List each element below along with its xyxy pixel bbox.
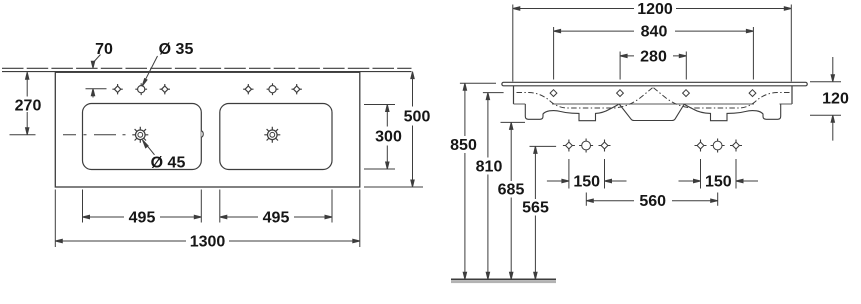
leader Ø45	[145, 143, 155, 155]
dim 500	[412, 72, 414, 187]
wall line solid	[2, 71, 412, 73]
body sides	[514, 86, 793, 104]
wall line dashed top	[2, 67, 412, 69]
floor	[451, 278, 556, 280]
svg-text:565: 565	[522, 200, 549, 217]
dim 1200	[513, 5, 792, 82]
svg-text:270: 270	[15, 98, 42, 115]
svg-text:70: 70	[95, 41, 113, 58]
dim 495 #2	[220, 190, 332, 223]
leader Ø35	[144, 56, 158, 83]
bowl 2 hidden dashed	[654, 88, 790, 108]
svg-text:495: 495	[263, 210, 290, 227]
svg-text:685: 685	[498, 182, 525, 199]
right underside + foot	[684, 104, 780, 121]
elevation faucet diamonds	[550, 90, 557, 97]
svg-text:840: 840	[641, 24, 668, 41]
svg-text:300: 300	[375, 129, 402, 146]
dim 150 left	[569, 159, 605, 189]
bowl 1 overflow bump	[201, 131, 203, 138]
basin outer rect	[55, 72, 360, 187]
dim 840	[554, 27, 754, 80]
dim 1300	[55, 190, 360, 248]
dim 150 right	[701, 159, 737, 189]
faucet hole set 1	[112, 83, 170, 95]
bowl 2	[220, 104, 332, 170]
bowl 1 hidden dashed	[517, 88, 653, 108]
drain 1	[132, 127, 148, 143]
fixing holes right	[695, 139, 743, 153]
slab	[502, 82, 807, 86]
dim 495 #1	[83, 190, 202, 223]
center trapezoid	[619, 104, 684, 121]
fixing holes left	[563, 139, 611, 153]
vertical 685	[501, 121, 526, 123]
svg-text:850: 850	[450, 137, 477, 154]
dim 270	[26, 72, 28, 134]
svg-text:1200: 1200	[637, 1, 673, 18]
bowl 1	[83, 104, 202, 170]
svg-text:500: 500	[404, 109, 431, 126]
drain 2	[264, 127, 280, 143]
vertical 565	[530, 145, 557, 147]
vertical 850	[460, 82, 496, 84]
svg-text:280: 280	[640, 48, 667, 65]
centerline dash-dot	[63, 134, 126, 136]
svg-text:120: 120	[822, 91, 849, 108]
dim 70	[93, 55, 100, 63]
left foot + underside	[525, 104, 618, 121]
svg-text:1300: 1300	[190, 234, 226, 251]
svg-text:810: 810	[476, 159, 503, 176]
body bottom line segments	[514, 103, 793, 105]
svg-text:495: 495	[129, 210, 156, 227]
faucet hole set 2	[243, 83, 302, 95]
svg-text:150: 150	[573, 174, 600, 191]
svg-text:Ø 45: Ø 45	[151, 155, 186, 172]
vertical 810	[483, 92, 504, 94]
dim 120	[810, 82, 841, 115]
svg-text:560: 560	[639, 193, 666, 210]
dim 280	[620, 52, 686, 80]
dim 560	[586, 193, 717, 206]
dim 300	[364, 105, 395, 170]
svg-text:Ø 35: Ø 35	[159, 41, 194, 58]
svg-text:150: 150	[705, 174, 732, 191]
